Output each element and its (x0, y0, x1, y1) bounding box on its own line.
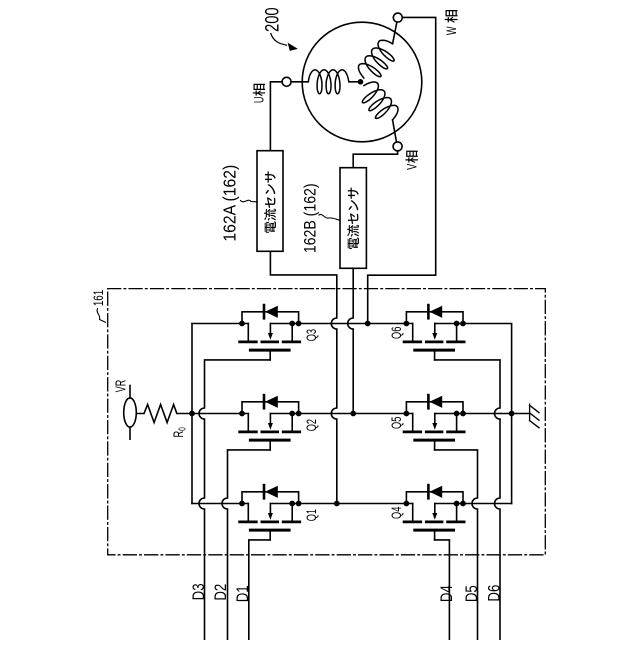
wire W coil to terminal (393, 22, 397, 44)
svg-text:VR: VR (112, 380, 129, 393)
VR leads (129, 386, 131, 440)
label Q6 (388, 326, 405, 339)
leader arrow for 200 (271, 34, 298, 51)
label D3 (189, 583, 208, 600)
svg-text:D6: D6 (485, 585, 504, 602)
svg-text:D1: D1 (233, 585, 252, 602)
current sensor 162B text 電流センサ (347, 188, 359, 249)
wire U phase: sensor 162A to Q1 rail (270, 251, 336, 503)
wire Q3 rail left (192, 323, 248, 325)
wire V coil to terminal (393, 120, 397, 142)
wire Q2 to Q5 rail (299, 413, 413, 415)
label U相 (253, 84, 268, 103)
label D5 (462, 585, 481, 602)
label D2 (211, 584, 230, 601)
winding W coil (358, 40, 394, 78)
label Q1 (303, 509, 320, 522)
svg-text:Q3: Q3 (303, 329, 320, 342)
wire Q5 rail to ground (463, 413, 530, 415)
node U phase on Q1 rail (334, 501, 340, 507)
svg-text:D4: D4 (437, 585, 456, 602)
node V phase on Q2 rail (350, 411, 356, 417)
wire Q2 rail left (192, 413, 248, 415)
svg-text:Q2: Q2 (303, 419, 320, 431)
label Q5 (388, 416, 405, 429)
terminal U (282, 77, 291, 86)
svg-text:D2: D2 (211, 584, 230, 601)
gate wire D6 from Q6 (435, 360, 500, 640)
winding V coil (362, 82, 398, 120)
node W phase on Q3 rail (365, 321, 371, 327)
gate wire D3 from Q3 (199, 360, 270, 640)
current sensor 162A box (257, 151, 283, 252)
wire U terminal to sensor 162A (270, 82, 282, 151)
current sensor 162A text 電流センサ (264, 172, 276, 233)
label 200 (262, 7, 283, 32)
terminal V (393, 142, 402, 151)
source VR ellipse (124, 398, 137, 427)
label 161 (90, 290, 106, 307)
svg-text:Q6: Q6 (388, 326, 405, 339)
wire Q1 rail left (192, 503, 248, 505)
svg-text:161: 161 (90, 290, 106, 307)
label D1 (233, 585, 252, 602)
svg-text:V: V (406, 164, 420, 170)
wire Q1 to Q4 rail (299, 503, 413, 505)
label 162A (162) (220, 165, 240, 242)
gate wire D4 from Q4 (435, 540, 450, 640)
inverter block 161 dash-dot boundary (108, 289, 546, 555)
gate wire D5 from Q5 (435, 450, 478, 640)
wire V terminal to sensor 162B (353, 151, 397, 168)
svg-text:162A (162): 162A (162) (220, 165, 240, 242)
gate wire D2 from Q2 (222, 450, 270, 640)
label Q3 (303, 329, 320, 342)
transistor Q5 with body diode (404, 395, 466, 450)
label W相 (443, 10, 460, 35)
label Q4 (388, 506, 405, 519)
ground symbol (530, 404, 539, 428)
transistor Q4 with body diode (404, 485, 466, 540)
leader 162A (241, 200, 258, 202)
svg-text:U: U (253, 96, 267, 103)
svg-text:D3: D3 (189, 583, 208, 600)
leader 161 (97, 309, 105, 323)
left supply rail (191, 324, 193, 504)
motor 200 stator circle (302, 22, 422, 142)
node right link junction (509, 411, 515, 417)
wire V phase: sensor 162B to Q2 rail (348, 268, 354, 413)
wire Q4 rail right (463, 503, 512, 505)
label VR (112, 380, 129, 393)
svg-text:162B (162): 162B (162) (301, 183, 319, 253)
wire W phase: right side to Q3 rail (368, 275, 436, 323)
transistor Q1 with body diode (239, 485, 301, 540)
gate wire D1 from Q1 (249, 540, 270, 640)
wire Q3 to Q6 rail (299, 323, 413, 325)
transistor Q6 with body diode (404, 305, 466, 360)
transistor Q2 with body diode (239, 395, 301, 450)
svg-text:200: 200 (262, 7, 283, 32)
winding U coil (308, 70, 349, 94)
svg-text:Q5: Q5 (388, 416, 405, 429)
label D6 (485, 585, 504, 602)
wire Q6 rail to right link (463, 324, 512, 504)
resistor R0 (136, 405, 192, 423)
terminal W (393, 13, 402, 22)
svg-text:Q4: Q4 (388, 506, 405, 519)
label 162B (162) (301, 183, 319, 253)
label R0 (170, 427, 188, 438)
svg-text:D5: D5 (462, 585, 481, 602)
label Q2 (303, 419, 320, 431)
leader 162B (319, 214, 340, 220)
svg-text:W: W (443, 26, 460, 35)
current sensor 162B box (340, 168, 366, 269)
transistor Q3 with body diode (239, 305, 301, 360)
wire U terminal to motor coil (291, 81, 308, 83)
label D4 (437, 585, 456, 602)
wire W terminal down right side (402, 17, 435, 275)
neutral star node (349, 79, 364, 85)
node R0 junction (189, 411, 195, 417)
label V相 (405, 151, 420, 170)
svg-text:Q1: Q1 (303, 509, 320, 522)
